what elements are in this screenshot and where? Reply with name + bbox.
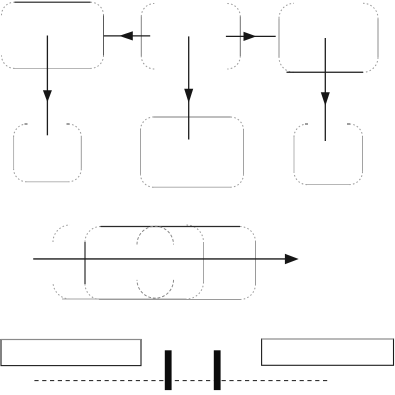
thick bar 2 xyxy=(214,350,221,390)
S6 top edge corner ticks xyxy=(305,123,308,125)
state box S1 (top-left) xyxy=(2,2,104,68)
arrow S2 to S1 (left) xyxy=(104,31,151,40)
state box S2 (top-middle) xyxy=(141,4,240,70)
state box S5 (row2 middle) xyxy=(141,117,244,187)
overlap rect B (middle cluster big) xyxy=(85,227,256,300)
arrow S3 down to S6 xyxy=(321,38,330,141)
dashed baseline xyxy=(34,380,328,382)
bottom rail rect left xyxy=(1,340,141,366)
S4 top edge corner ticks xyxy=(25,123,28,125)
timeline arrow through cluster xyxy=(33,254,299,264)
state box S6 (row2 right) xyxy=(294,124,363,185)
arrow S1 down to S4 xyxy=(43,36,52,136)
state box S3 (top-right) xyxy=(279,3,378,72)
state box S4 (row2 left) xyxy=(14,124,82,182)
arrow S2 down to S5 xyxy=(184,36,193,139)
arrow S2 to S3 (right) xyxy=(226,32,276,41)
overlap rect A (middle cluster left) xyxy=(53,225,204,299)
S3 dark bottom edge xyxy=(287,71,364,73)
thick bar 1 xyxy=(165,350,172,390)
bottom rail rect right xyxy=(262,339,394,365)
overlap stadium O (middle cluster inner) xyxy=(137,226,174,298)
rect A bottom edge xyxy=(62,298,187,300)
